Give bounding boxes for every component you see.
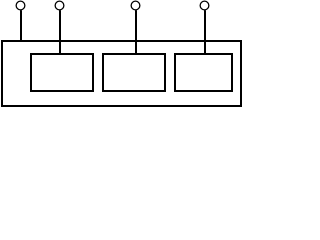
enclosure (outer case) — [2, 41, 241, 106]
wire lead to element E3 — [204, 10, 206, 54]
wire lead to case — [20, 10, 22, 41]
wire lead to element E1 — [59, 10, 61, 54]
element E3 (inner box 3) — [175, 54, 232, 91]
terminal T1 — [16, 1, 25, 10]
element E1 (inner box 1) — [31, 54, 93, 91]
terminal T4 — [200, 1, 209, 10]
wire lead to element E2 — [135, 10, 137, 54]
terminal T3 — [131, 1, 140, 10]
element E2 (inner box 2) — [103, 54, 165, 91]
terminal T2 — [55, 1, 64, 10]
